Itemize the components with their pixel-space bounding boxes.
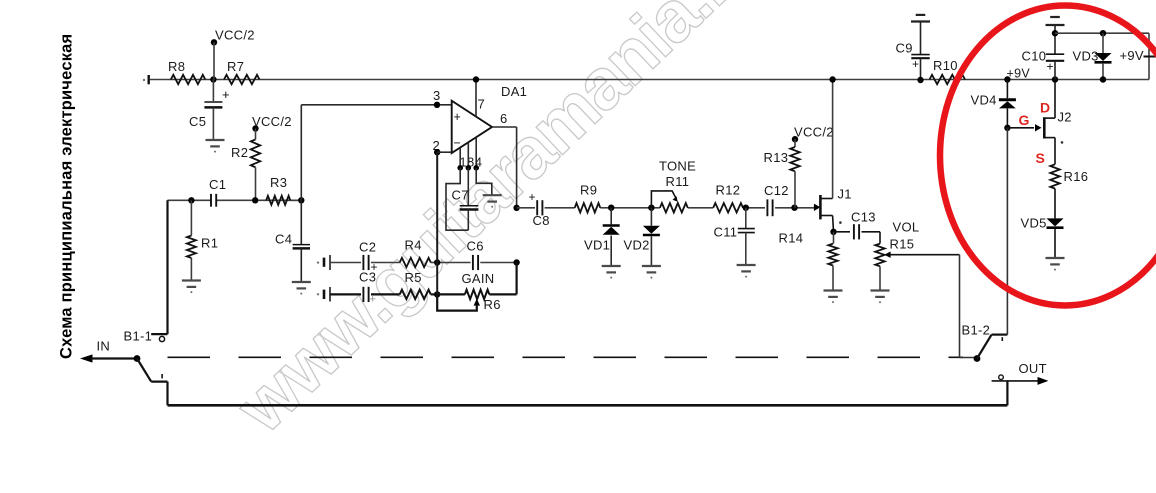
node +9V <box>1004 76 1010 82</box>
svg-text:VOL: VOL <box>893 220 920 235</box>
capacitor C12 <box>766 199 768 216</box>
svg-text:C6: C6 <box>467 239 484 254</box>
diode VD5 <box>1047 218 1064 226</box>
wire pin 6 output <box>492 126 517 128</box>
wire OUT to bottom rail <box>1006 381 1008 405</box>
svg-text:C2: C2 <box>359 239 376 254</box>
svg-text:C3: C3 <box>359 270 376 285</box>
node pin 2 <box>434 149 440 155</box>
svg-text:VD4: VD4 <box>971 93 997 108</box>
ground below VD1 <box>602 265 621 267</box>
svg-text:+9V: +9V <box>1120 48 1144 63</box>
node C11 <box>743 205 749 211</box>
svg-text:IN: IN <box>97 339 111 354</box>
capacitor C2 <box>362 255 364 270</box>
capacitor C4 <box>300 200 302 244</box>
resistor R13 <box>790 147 799 171</box>
wire bottom bypass rail <box>168 404 1008 407</box>
svg-text:+: + <box>370 294 377 306</box>
node C9 on rail <box>917 77 923 83</box>
svg-text:R13: R13 <box>764 150 789 165</box>
node C1 left <box>188 197 194 203</box>
R15 wiper arrow <box>884 252 890 258</box>
svg-text:3: 3 <box>433 88 441 103</box>
diode VD2 <box>650 208 652 226</box>
capacitor C6 <box>472 255 474 270</box>
pin 4 stub <box>475 137 477 168</box>
wire pin 2 stub <box>437 151 452 153</box>
svg-text:R4: R4 <box>405 238 422 253</box>
svg-text:R8: R8 <box>168 59 185 74</box>
pin 8 stub <box>467 142 469 168</box>
capacitor C10 <box>1054 25 1056 54</box>
diode VD4 <box>1006 80 1008 99</box>
svg-text:R6: R6 <box>484 297 501 312</box>
svg-text:184: 184 <box>460 156 483 170</box>
svg-text:C9: C9 <box>896 41 913 56</box>
svg-text:6: 6 <box>500 111 508 126</box>
pin 7 wire <box>475 80 477 117</box>
node VD1 <box>608 205 614 211</box>
R6 wiper arrow <box>474 299 480 306</box>
node J2 gate <box>1004 125 1010 131</box>
capacitor C1 <box>210 194 212 207</box>
wire R15 to B1-2 <box>959 255 961 358</box>
node VD3 top <box>1100 30 1106 36</box>
resistor R10 <box>930 75 966 84</box>
node R8/R7/C5 junction <box>210 76 216 82</box>
wire inverting input riser <box>436 152 438 294</box>
svg-text:C8: C8 <box>533 213 550 228</box>
node R3 right <box>298 197 304 203</box>
wire R6 row <box>437 293 465 295</box>
node C10 top <box>1052 30 1058 36</box>
svg-text:7: 7 <box>478 97 486 112</box>
resistor R7 <box>224 75 260 84</box>
potentiometer R11 TONE <box>660 203 688 212</box>
ground below VD5 <box>1046 257 1065 259</box>
svg-text:R11: R11 <box>666 174 690 189</box>
contact circle OUT <box>999 375 1004 380</box>
resistor R5 <box>400 290 431 299</box>
wire +9V top rail <box>150 79 1149 81</box>
resistor R12 <box>713 203 743 212</box>
ground below R14 <box>824 289 843 291</box>
svg-text:GAIN: GAIN <box>462 271 495 286</box>
terminal C2 row <box>317 261 319 263</box>
asterisk near J1 source <box>839 221 842 224</box>
node pin 3 <box>434 102 440 108</box>
svg-text:B1-2: B1-2 <box>962 323 991 338</box>
svg-text:C4: C4 <box>275 232 292 247</box>
node pin 8 <box>466 165 472 171</box>
resistor R8 <box>171 75 206 84</box>
ground at pin 4 <box>483 194 502 196</box>
wire C1-left to B1-1 <box>166 200 168 334</box>
svg-text:D: D <box>1040 100 1050 116</box>
asterisk near J2 source <box>1061 141 1064 144</box>
svg-text:J1: J1 <box>838 187 852 202</box>
wire to pin 3 <box>300 105 302 201</box>
resistor R1 <box>190 200 192 235</box>
svg-text:R14: R14 <box>779 231 804 246</box>
svg-text:S: S <box>1036 150 1046 166</box>
svg-text:R2: R2 <box>231 145 248 160</box>
svg-text:C11: C11 <box>714 225 738 240</box>
node pin 4 <box>473 165 479 171</box>
svg-text:VD5: VD5 <box>1021 216 1047 231</box>
wire input row <box>168 199 212 201</box>
capacitor C3 <box>362 287 364 302</box>
mech link dashed line <box>168 356 964 358</box>
contact tick B1-2 <box>1001 337 1003 341</box>
svg-text:R3: R3 <box>270 175 287 190</box>
ground below VD2 <box>642 265 661 267</box>
resistor R3 <box>266 196 290 205</box>
capacitor C13 <box>834 231 851 233</box>
node VD2 <box>648 205 654 211</box>
svg-text:R12: R12 <box>716 183 741 198</box>
svg-text:+: + <box>1047 60 1054 74</box>
svg-text:C13: C13 <box>851 209 876 224</box>
node pin 1 <box>457 165 463 171</box>
terminal C3 row <box>317 293 319 295</box>
node VD3 bottom <box>1100 76 1106 82</box>
terminal left of R8 <box>143 79 145 81</box>
resistor R2 <box>251 139 260 167</box>
resistor R16 <box>1050 164 1059 188</box>
wire to bottom rail left <box>166 382 168 406</box>
node R3 left <box>252 197 258 203</box>
svg-text:C10: C10 <box>1022 49 1047 64</box>
wire C8 row <box>517 207 535 209</box>
svg-text:C7: C7 <box>452 188 469 203</box>
svg-text:B1-1: B1-1 <box>124 329 153 344</box>
wire pin1 loop <box>446 168 468 230</box>
capacitor C8 <box>536 200 538 215</box>
svg-text:VD2: VD2 <box>624 237 650 252</box>
svg-text:+: + <box>454 110 462 124</box>
svg-text:TONE: TONE <box>659 159 696 174</box>
arrow OUT <box>992 380 1040 382</box>
svg-text:+: + <box>529 190 536 204</box>
svg-text:DA1: DA1 <box>501 84 527 99</box>
wire C3 row <box>330 293 361 295</box>
svg-text:VCC/2: VCC/2 <box>794 125 834 140</box>
ground above C10 <box>1046 24 1065 26</box>
transistor J1 <box>814 204 821 211</box>
node J2 drain on rail <box>1052 76 1058 82</box>
transistor J2 <box>1007 127 1034 129</box>
svg-text:R10: R10 <box>933 58 958 73</box>
capacitor C5 <box>212 80 214 102</box>
diode VD1 <box>610 208 612 225</box>
svg-text:J2: J2 <box>1058 110 1072 125</box>
ground below C4 <box>292 281 311 283</box>
wire pin4 to ground <box>476 168 492 195</box>
node pin 7 on rail <box>473 76 479 82</box>
svg-text:G: G <box>1019 112 1030 128</box>
svg-text:Схема принципиальная электриче: Схема принципиальная электрическая <box>58 34 76 359</box>
svg-text:VCC/2: VCC/2 <box>215 28 255 43</box>
resistor R14 <box>833 232 835 244</box>
svg-text:R16: R16 <box>1064 169 1089 184</box>
arrow IN <box>80 354 93 362</box>
node C6 right <box>513 259 519 265</box>
switch blade B1-1 <box>137 359 151 382</box>
switch blade B1-2 <box>977 335 992 359</box>
node C12/R13/J1 <box>791 205 797 211</box>
ground below C11 <box>737 264 756 266</box>
capacitor C7 <box>467 168 469 206</box>
pin 1 stub <box>459 148 461 168</box>
svg-text:VD3: VD3 <box>1073 49 1099 64</box>
svg-text:R1: R1 <box>201 236 218 251</box>
svg-text:+: + <box>222 87 230 102</box>
R11 wiper <box>651 191 676 208</box>
node J1 drain on rail <box>829 76 835 82</box>
potentiometer R15 VOL <box>875 244 884 267</box>
svg-text:www.guitaramania.ru: www.guitaramania.ru <box>221 0 777 448</box>
svg-text:C12: C12 <box>764 183 789 198</box>
op-amp DA1 <box>452 101 492 153</box>
svg-text:R15: R15 <box>890 237 915 252</box>
node R4 right <box>434 259 440 265</box>
wire C2 row <box>330 262 361 264</box>
svg-text:C1: C1 <box>209 177 226 192</box>
potentiometer R6 GAIN <box>465 290 489 299</box>
contact circle B1-1 <box>159 336 164 341</box>
red highlight ellipse <box>940 6 1156 306</box>
ground below R15 <box>871 289 890 291</box>
wire top-right loop <box>1055 32 1149 34</box>
node B1-2 pivot <box>974 355 981 362</box>
node R5 right <box>434 291 440 297</box>
ground below C5 <box>206 139 225 141</box>
ground above C9 <box>911 20 930 22</box>
svg-text:R7: R7 <box>227 59 244 74</box>
capacitor C9 <box>920 22 922 55</box>
svg-text:R9: R9 <box>580 183 597 198</box>
capacitor C11 <box>745 208 747 229</box>
resistor R4 <box>400 258 431 267</box>
ground below R1 <box>182 279 201 281</box>
wire gate to B1-2 <box>1006 128 1008 335</box>
diode VD3 <box>1102 33 1104 53</box>
svg-text:C5: C5 <box>189 114 206 129</box>
node B1-1 pivot <box>134 355 141 362</box>
svg-text:VD1: VD1 <box>584 237 610 252</box>
resistor R9 <box>575 203 601 212</box>
node pin6/C8 <box>513 205 519 211</box>
contact tick B1-1 <box>161 374 163 378</box>
node J1 source <box>830 229 836 235</box>
svg-text:R5: R5 <box>405 270 422 285</box>
svg-text:+: + <box>912 57 919 71</box>
svg-text:OUT: OUT <box>1019 361 1047 376</box>
